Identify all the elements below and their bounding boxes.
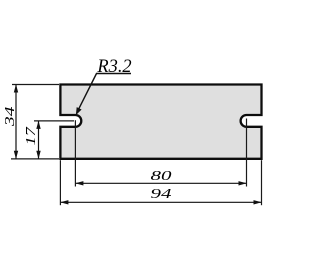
- dimension line 80: [76, 182, 246, 184]
- left slot vertical extension (80 dim): [74, 120, 76, 186]
- dimension line 17: [38, 121, 40, 158]
- svg-text:R3.2: R3.2: [96, 56, 131, 77]
- extension line bottom-left (34/17 dim): [11, 158, 59, 160]
- right slot vertical extension (80 dim): [246, 119, 248, 187]
- slot centerline extension (17 dim): [34, 120, 74, 122]
- bottom-left vertical extension (94 dim): [59, 160, 61, 205]
- svg-text:17: 17: [23, 126, 39, 145]
- dimension line 34: [15, 85, 17, 159]
- dimension line 94: [61, 201, 261, 203]
- bottom-right vertical extension (94 dim): [261, 160, 263, 205]
- extension line top-left (34 dim): [12, 84, 59, 86]
- leader line R3.2: [79, 74, 131, 109]
- plate outline with two side slots: [60, 85, 261, 159]
- svg-text:80: 80: [151, 167, 172, 183]
- svg-text:34: 34: [2, 106, 18, 127]
- leader arrowhead: [76, 107, 82, 115]
- svg-text:94: 94: [151, 186, 172, 202]
